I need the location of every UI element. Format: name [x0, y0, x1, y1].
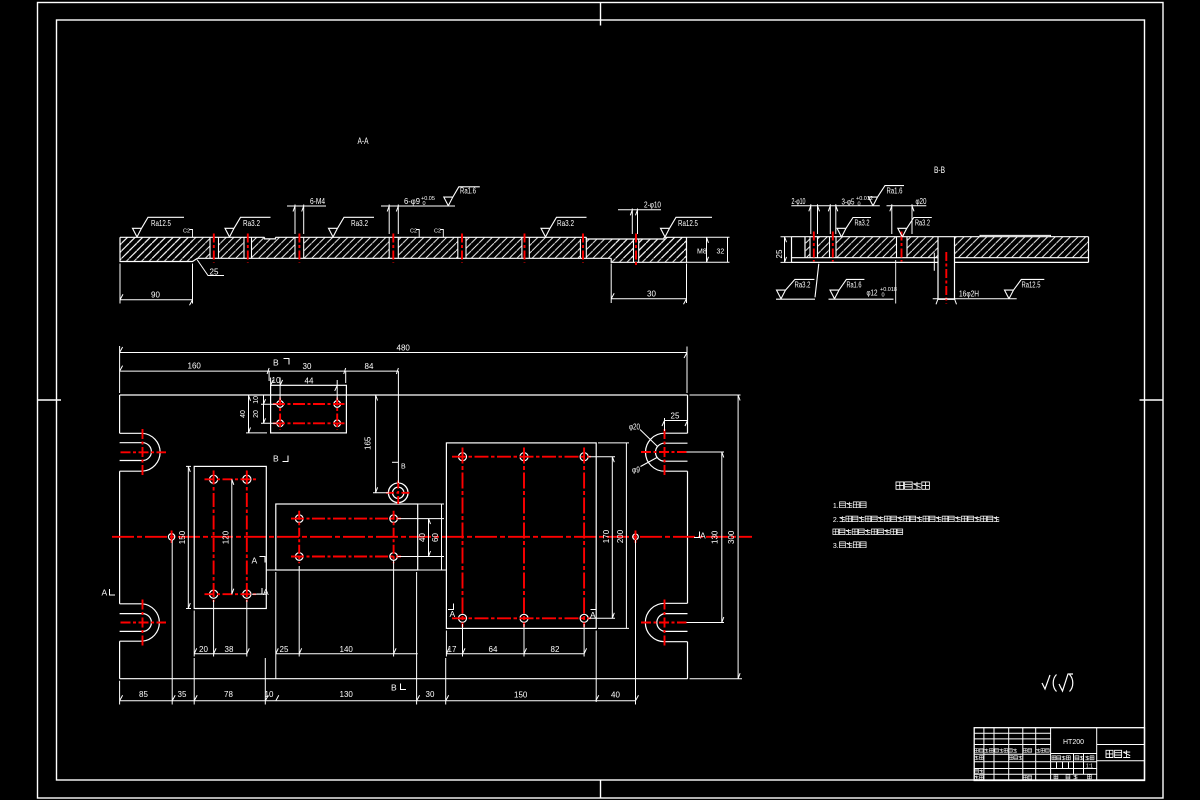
- tb col label D: [1023, 749, 1031, 753]
- A-A left thick block outline: [120, 237, 198, 261]
- note line 1 glyphs: [840, 502, 867, 508]
- U-slot upper-right: [646, 433, 688, 471]
- left slot row2 extension to A marker: [252, 593, 266, 595]
- chamfer mark C2 mid2: [434, 229, 443, 238]
- svg-text:Ra1.6: Ra1.6: [887, 187, 903, 196]
- A-A right thick block outline: [611, 237, 686, 262]
- svg-text:6-M4: 6-M4: [310, 197, 325, 206]
- B-B hatched bar body: [805, 237, 1089, 258]
- svg-text:0: 0: [882, 293, 885, 299]
- center rect right dims 40 60: [397, 504, 444, 570]
- top boss circles: [277, 401, 284, 408]
- section marker A right-rect bottom-right: [590, 604, 596, 621]
- left rect bottom dims 20 38: [194, 600, 249, 657]
- Ra3.2 mark 2: [329, 217, 375, 237]
- svg-text:30: 30: [426, 690, 435, 699]
- B-B top lip: [980, 235, 1051, 236]
- plan outline right edge: [687, 395, 689, 679]
- tb col label B: [985, 749, 993, 753]
- svg-text:300: 300: [727, 530, 736, 544]
- technical requirements title glyphs: [896, 482, 929, 489]
- bottom chain dims: [120, 540, 639, 705]
- svg-text:B: B: [273, 358, 279, 368]
- section marker A right-rect bottom-left: [448, 604, 456, 620]
- tb col label E: [1036, 749, 1049, 753]
- svg-text:140: 140: [340, 645, 354, 654]
- A-A hole gap 8: [634, 236, 639, 263]
- section marker B middle: [273, 454, 288, 464]
- plan outline left edge: [119, 395, 121, 679]
- svg-text:3-φ5: 3-φ5: [842, 198, 855, 207]
- svg-text:Ra3.2: Ra3.2: [243, 219, 260, 228]
- B-B boss hole gap: [938, 235, 955, 260]
- right center tick: [1140, 399, 1164, 401]
- Ra12.5 mark left: [133, 217, 185, 237]
- note line 4 glyphs: [840, 542, 867, 548]
- B-B bushing boss below: [938, 237, 955, 300]
- tb sheet label 4: [1088, 775, 1092, 779]
- B-B Ra3.2 mark top 1: [837, 218, 871, 238]
- svg-text:HT200: HT200: [1063, 739, 1084, 746]
- dim 6-d9 callout: [381, 196, 455, 234]
- svg-text:78: 78: [224, 690, 233, 699]
- svg-text:B-B: B-B: [934, 165, 945, 175]
- section marker A right: [694, 531, 706, 541]
- center slot centerlines (red): [291, 519, 401, 557]
- tb col label A: [975, 749, 983, 753]
- U-slot lower-right centerlines: [641, 600, 687, 646]
- svg-text:30: 30: [647, 290, 656, 299]
- section marker A left: [102, 588, 116, 598]
- svg-text:2-φ10: 2-φ10: [644, 201, 661, 210]
- right slot circles row 1: [459, 453, 467, 461]
- tb sheet label 1: [1054, 775, 1058, 779]
- svg-text:A-A: A-A: [358, 136, 369, 146]
- svg-text:25: 25: [671, 412, 680, 421]
- A-A hole gap 5: [458, 236, 466, 260]
- Ra12.5 mark right: [661, 217, 713, 237]
- svg-text:φ20: φ20: [916, 197, 927, 206]
- A-A top notch 1: [265, 236, 276, 239]
- svg-text:A: A: [252, 556, 258, 566]
- left slot circles: [210, 475, 218, 483]
- tb weight label: [1075, 756, 1084, 760]
- tb row label audit: [975, 769, 983, 773]
- leader d9 upper right U: [632, 458, 657, 475]
- part name glyphs: [1106, 750, 1130, 757]
- B-B boss centerline (red): [945, 252, 947, 304]
- svg-text:Ra3.2: Ra3.2: [795, 281, 811, 290]
- svg-text:32: 32: [717, 249, 725, 256]
- A-A hole centerlines (red): [214, 234, 636, 266]
- right rect side dims 170 200: [589, 443, 630, 629]
- svg-text:20: 20: [199, 645, 208, 654]
- svg-text:40: 40: [611, 690, 620, 699]
- right pin circle vertical centerline: [635, 531, 637, 544]
- svg-text:3.: 3.: [833, 543, 839, 550]
- A-A hole gap 1: [210, 236, 219, 260]
- svg-text:A: A: [700, 531, 706, 541]
- svg-text:64: 64: [489, 645, 498, 654]
- title block outer box: [974, 728, 1144, 781]
- B-B Ra1.6 mark top: [869, 186, 905, 206]
- dim 18 right end: [687, 237, 730, 262]
- svg-text:130: 130: [711, 530, 720, 544]
- U-slot lower-right: [645, 603, 687, 641]
- tb scale label: [1085, 756, 1094, 760]
- svg-text:82: 82: [551, 645, 560, 654]
- chamfer mark C2 mid1: [410, 229, 419, 238]
- svg-text:1.: 1.: [833, 503, 839, 510]
- svg-text:Ra1.6: Ra1.6: [460, 187, 476, 196]
- svg-text:130: 130: [340, 690, 354, 699]
- svg-text:160: 160: [188, 362, 202, 371]
- A-A hole gap 7: [580, 236, 586, 260]
- svg-text:200: 200: [616, 529, 625, 543]
- svg-text:Ra3.2: Ra3.2: [351, 219, 368, 228]
- svg-text:1:1: 1:1: [1086, 764, 1093, 770]
- tb sheet label 2: [1066, 775, 1070, 779]
- center slot rectangle: [276, 504, 418, 570]
- dim 90 below left block: [120, 264, 193, 306]
- A-A bar bottom edge: [198, 257, 612, 259]
- B-B dim 16 d12H8 with Ra12.5 below boss: [933, 253, 1045, 305]
- dim 2-d10 callout: [618, 201, 661, 235]
- label 25 leader: [197, 260, 224, 277]
- svg-text:16φ2H: 16φ2H: [959, 290, 979, 299]
- svg-text:M8: M8: [697, 249, 707, 256]
- section cut corner bracket at boss circle: [392, 461, 398, 463]
- svg-text:Ra12.5: Ra12.5: [1022, 281, 1041, 290]
- dim 32 right end: [717, 237, 728, 262]
- center double circle boss: [388, 483, 408, 503]
- Ra3.2 mark 1: [225, 217, 271, 237]
- B-B hole gap 3: [897, 235, 908, 260]
- boss top dims 10 44: [271, 376, 338, 400]
- Ra1.6 mark on dim line: [444, 187, 480, 206]
- svg-text:84: 84: [365, 362, 374, 371]
- svg-text:90: 90: [151, 291, 160, 300]
- B-B Ra3.2 mark top 2: [898, 218, 932, 238]
- center double circle centerlines (red): [386, 481, 411, 506]
- section marker B bottom: [391, 683, 406, 693]
- svg-text:Ra3.2: Ra3.2: [855, 219, 870, 228]
- A-A hole gap 6: [522, 236, 529, 260]
- svg-text:6-φ9: 6-φ9: [404, 197, 421, 206]
- Ra3.2 mark 3: [541, 217, 587, 237]
- svg-text:A: A: [590, 610, 596, 620]
- title block left grid rows: [974, 733, 1050, 774]
- B-B hole gap 2: [830, 235, 837, 260]
- top boss rectangle: [271, 385, 347, 433]
- tb stage-mark label: [1052, 756, 1070, 760]
- left rect dim 120: [221, 479, 234, 594]
- tb row label craft: [975, 776, 983, 780]
- title block right rows: [1097, 745, 1145, 761]
- tb row label standard: [1009, 756, 1022, 760]
- title block middle box: [1051, 728, 1097, 781]
- bottom center tick: [600, 780, 602, 798]
- svg-text:A: A: [102, 588, 108, 598]
- plan outline bottom edge: [120, 678, 688, 680]
- svg-text:Ra1.6: Ra1.6: [847, 281, 862, 290]
- A-A hatched bar body: [120, 237, 687, 258]
- B-B hole gap 1: [810, 235, 818, 260]
- svg-text:150: 150: [514, 690, 528, 699]
- svg-text:A: A: [263, 587, 269, 597]
- svg-text:Ra3.2: Ra3.2: [915, 219, 930, 228]
- B-B top dim line: [791, 204, 926, 234]
- svg-text:120: 120: [221, 530, 230, 544]
- svg-text:20: 20: [253, 410, 260, 418]
- right rect bottom dims 17 64 82: [446, 624, 596, 702]
- top chain dims 160 30 84: [120, 362, 399, 484]
- plan outline top edge: [120, 394, 688, 396]
- svg-text:17: 17: [448, 645, 457, 654]
- dim 30 below right block: [611, 264, 686, 305]
- B-B bar outline: [792, 237, 1089, 263]
- left rect dim 150: [178, 466, 191, 608]
- svg-text:φ9: φ9: [632, 466, 640, 475]
- svg-text:B: B: [391, 683, 397, 693]
- dim 6-M4 callout: [287, 197, 326, 234]
- svg-text:480: 480: [397, 343, 411, 352]
- A-A hole gap 4: [389, 236, 398, 260]
- center slot circles: [295, 515, 303, 523]
- section marker B top: [273, 358, 289, 368]
- left slot rectangle: [194, 466, 266, 608]
- A-A hole gap 3: [295, 236, 304, 260]
- svg-text:25: 25: [775, 249, 784, 258]
- tb col label C: [995, 749, 1017, 753]
- U-slot upper-left: [120, 433, 161, 471]
- tb sheet label 3: [1074, 775, 1078, 779]
- svg-text:B: B: [273, 454, 279, 464]
- dim 25 upper right U: [662, 412, 688, 432]
- svg-text:40: 40: [418, 533, 427, 542]
- right slot rectangle: [446, 443, 596, 629]
- note line 2 glyphs: [840, 516, 1000, 522]
- A-A hole walls: [210, 237, 639, 262]
- A-A left thick block hatch: [120, 237, 193, 261]
- svg-text:C2: C2: [434, 229, 441, 235]
- svg-text:φ12: φ12: [867, 289, 878, 298]
- svg-text:0: 0: [423, 201, 426, 207]
- svg-text:0: 0: [858, 202, 861, 208]
- chamfer mark C2 left: [183, 229, 193, 238]
- right side dim 300 overall: [690, 395, 743, 679]
- svg-text:2.: 2.: [833, 517, 839, 524]
- B-B hole centerlines (red): [814, 232, 902, 262]
- tb row label date: [1023, 776, 1031, 780]
- A-A top notch 2: [586, 236, 664, 239]
- note line 3 glyphs: [833, 529, 903, 535]
- svg-text:Ra12.5: Ra12.5: [678, 219, 698, 228]
- svg-text:25: 25: [280, 645, 289, 654]
- top center tick: [600, 3, 602, 26]
- svg-text:40: 40: [240, 410, 247, 418]
- tb row label design: [975, 756, 983, 760]
- svg-text:φ20: φ20: [629, 423, 640, 432]
- dim 165 vertical to boss circle: [364, 395, 390, 493]
- svg-text:60: 60: [431, 533, 440, 542]
- U-slot lower-left centerlines: [121, 600, 167, 646]
- main horizontal centerline (red): [112, 536, 752, 538]
- leader d20 upper right U: [629, 423, 658, 447]
- right slot circles row 2: [459, 614, 467, 622]
- svg-text:85: 85: [139, 690, 148, 699]
- left center tick: [38, 399, 62, 401]
- U-slot upper-right centerlines: [641, 429, 687, 475]
- svg-text:C2: C2: [410, 229, 417, 235]
- surface finish note mark: [1042, 674, 1073, 692]
- A-A bar top edge: [120, 237, 687, 239]
- svg-text:Ra3.2: Ra3.2: [557, 219, 574, 228]
- left pin circle vertical centerline: [171, 531, 173, 544]
- right pin circle: [633, 534, 639, 540]
- B-B dim 25 left: [775, 237, 792, 263]
- svg-text:B: B: [401, 464, 406, 471]
- svg-text:10: 10: [253, 396, 260, 404]
- svg-text:10: 10: [272, 376, 281, 385]
- svg-text:44: 44: [305, 377, 314, 386]
- svg-text:25: 25: [210, 267, 219, 276]
- center rect bottom dims 25 140: [276, 560, 418, 679]
- svg-text:A: A: [450, 609, 456, 619]
- section marker A mid-left lower: [257, 587, 270, 597]
- svg-text:30: 30: [303, 362, 312, 371]
- svg-text:C2: C2: [183, 229, 190, 235]
- boss left dims 10 20 40: [240, 395, 277, 433]
- svg-text:Ra12.5: Ra12.5: [151, 219, 171, 228]
- svg-text:38: 38: [225, 645, 234, 654]
- svg-text:165: 165: [364, 436, 373, 450]
- U-slot lower-left: [120, 604, 160, 641]
- right slot centerlines (red): [452, 457, 591, 619]
- ledge line across center: [266, 569, 446, 571]
- top boss slot centerlines (red): [273, 404, 345, 423]
- B-B Ra3.2 mark below: [776, 264, 819, 300]
- left slot centerlines (red): [214, 471, 247, 603]
- svg-text:170: 170: [602, 529, 611, 543]
- svg-text:35: 35: [178, 690, 187, 699]
- U-slot upper-left centerlines: [121, 429, 167, 476]
- svg-text:150: 150: [178, 530, 187, 544]
- title block left grid columns: [984, 728, 1051, 781]
- B-B hole walls: [810, 237, 907, 258]
- svg-text:10: 10: [265, 690, 274, 699]
- left pin circle: [168, 534, 174, 540]
- svg-text:2-φ10: 2-φ10: [792, 197, 806, 206]
- B-B Ra1.6 mark below with d12: [829, 260, 897, 304]
- dim 480 top: [120, 343, 687, 393]
- section marker A mid-left upper: [252, 556, 266, 566]
- A-A right thick block hatch: [611, 237, 686, 262]
- right side dim 130 between U slots: [687, 452, 725, 623]
- A-A hole gap 2: [244, 236, 252, 260]
